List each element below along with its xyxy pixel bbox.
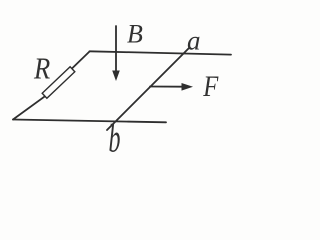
wire top rail [90,51,232,54]
force arrow F [150,83,193,91]
svg-text:a: a [187,26,201,56]
svg-text:F: F [202,70,218,103]
field arrow B [112,26,120,81]
wire left rail [13,52,90,120]
svg-text:b: b [109,118,121,156]
wire bottom rail [13,120,166,123]
resistor R [42,67,75,98]
svg-text:R: R [33,53,50,86]
rod ab [107,48,189,130]
svg-text:B: B [127,19,143,48]
